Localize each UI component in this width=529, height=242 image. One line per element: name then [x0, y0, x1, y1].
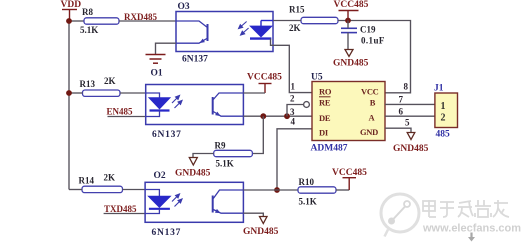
wire VDD to R13	[69, 92, 83, 94]
svg-text:2K: 2K	[104, 76, 116, 86]
svg-text:7: 7	[399, 95, 404, 105]
junction VDD/R13	[66, 90, 72, 96]
svg-text:VCC485: VCC485	[247, 73, 282, 83]
transistor inside O2	[213, 190, 244, 213]
watermark logo circle	[381, 194, 419, 237]
svg-text:6N137: 6N137	[182, 55, 208, 65]
wire O3 anode to R15	[273, 20, 301, 22]
wire O1 collector to VCC485	[243, 92, 265, 94]
svg-text:2: 2	[441, 113, 446, 124]
power VCC485 bottom	[343, 178, 357, 190]
svg-text:O1: O1	[151, 69, 163, 79]
resistor R14	[82, 186, 123, 192]
svg-text:GND485: GND485	[333, 59, 369, 69]
svg-text:4: 4	[291, 117, 296, 127]
svg-text:TXD485: TXD485	[104, 204, 137, 214]
svg-text:R14: R14	[79, 176, 95, 186]
wire VDD to R8	[69, 20, 84, 22]
svg-text:2K: 2K	[104, 173, 116, 183]
junction DI/R10	[274, 187, 280, 193]
power VDD	[62, 10, 77, 22]
svg-text:U5: U5	[311, 73, 323, 83]
resistor R10	[298, 187, 336, 193]
wire RXD485 (R8 to O3)	[119, 20, 176, 22]
optocoupler O2 body	[145, 182, 243, 222]
ground GND485 (C19)	[345, 50, 353, 57]
svg-text:EN485: EN485	[107, 107, 134, 117]
svg-text:6N137: 6N137	[152, 228, 182, 238]
svg-text:DE: DE	[319, 113, 331, 123]
wire R14 to O2	[123, 189, 146, 191]
svg-text:3: 3	[290, 107, 295, 117]
IC U5 ADM487 body	[312, 82, 385, 141]
wire R9 drop	[252, 116, 263, 153]
svg-text:GND485: GND485	[175, 169, 211, 179]
wire EN485	[108, 116, 146, 118]
transistor inside O3	[176, 21, 208, 43]
wire U5 pin5 GND to ground	[385, 128, 411, 132]
svg-text:C19: C19	[360, 25, 376, 35]
svg-text:1: 1	[291, 82, 296, 92]
svg-text:GND485: GND485	[243, 227, 279, 237]
svg-text:485: 485	[436, 130, 451, 140]
light arrows O2	[172, 194, 182, 207]
wire R10 to VCC485	[336, 189, 349, 191]
junction RE/DE tie	[284, 113, 290, 119]
wire U5 pin2 RE tie	[287, 105, 305, 117]
svg-text:5.1K: 5.1K	[216, 159, 234, 169]
wire U5 pin6 A to J1	[385, 115, 435, 117]
svg-text:RXD485: RXD485	[124, 12, 157, 22]
svg-text:R10: R10	[299, 177, 315, 187]
junction R15/C19/VCC485	[345, 18, 351, 24]
power VCC485 mid	[259, 84, 272, 94]
resistor R9	[214, 150, 253, 156]
svg-text:0.1uF: 0.1uF	[361, 36, 385, 46]
svg-text:VCC: VCC	[361, 87, 379, 97]
svg-text:2K: 2K	[289, 23, 301, 33]
svg-text:6N137: 6N137	[152, 130, 182, 140]
svg-text:R9: R9	[215, 141, 226, 151]
junction emitter/R9	[260, 113, 266, 119]
svg-text:GND485: GND485	[393, 144, 429, 154]
wire VDD rail vertical	[68, 21, 70, 190]
ground GND485 (R9)	[189, 158, 197, 166]
ground O1 (earth)	[146, 55, 166, 64]
optocoupler O3 body	[176, 12, 273, 52]
LED inside O3	[250, 21, 273, 39]
svg-text:O2: O2	[154, 171, 166, 181]
optocoupler O1 body	[146, 85, 244, 125]
svg-text:1: 1	[441, 101, 446, 112]
wire O2 collector to R10	[243, 189, 298, 191]
svg-text:J1: J1	[434, 84, 444, 94]
light arrows O3	[239, 22, 249, 36]
svg-text:B: B	[370, 98, 376, 108]
svg-text:VCC485: VCC485	[332, 168, 367, 178]
wire TXD485	[104, 213, 146, 215]
wire R9 to ground	[193, 154, 214, 158]
wire R13 to O1	[120, 92, 146, 94]
ground GND485 (O2)	[260, 217, 268, 224]
svg-text:ADM487: ADM487	[311, 144, 348, 154]
wire O2 emitter to ground	[243, 213, 263, 216]
junction VDD/R8	[66, 18, 72, 24]
svg-text:GND: GND	[360, 127, 378, 137]
wire O1 emitter to DE/RE (U5 pin3)	[243, 115, 312, 117]
svg-text:VCC485: VCC485	[334, 0, 369, 10]
LED inside O1	[146, 93, 170, 117]
watermark arrow	[468, 233, 475, 242]
svg-text:VDD: VDD	[61, 0, 82, 10]
ground GND485 (U5 pin5)	[407, 133, 415, 140]
svg-text:5: 5	[405, 118, 410, 128]
watermark CJK text 电子发烧友	[423, 200, 509, 217]
wire O3 cathode to U5 pin1	[271, 39, 313, 93]
svg-text:O3: O3	[178, 2, 190, 12]
svg-text:RE: RE	[319, 98, 331, 108]
wire C19 stems	[347, 21, 349, 29]
svg-text:5.1K: 5.1K	[80, 25, 98, 35]
svg-text:5.1K: 5.1K	[299, 197, 317, 207]
resistor R15	[301, 17, 338, 23]
wire VDD to R14	[69, 189, 82, 191]
svg-text:RO: RO	[319, 87, 332, 97]
svg-text:DI: DI	[319, 128, 329, 138]
capacitor C19	[341, 28, 357, 32]
LED inside O2	[145, 190, 170, 214]
connector J1 body	[435, 93, 458, 128]
wire O3 emitter to ground	[156, 43, 177, 54]
wire R15 to VCC485 node to U5 pin8	[338, 21, 411, 93]
light arrows O1	[172, 96, 182, 109]
transistor inside O1	[213, 93, 244, 116]
power VCC485 top	[339, 11, 359, 21]
pin2 bubble	[304, 102, 310, 108]
svg-text:R8: R8	[82, 7, 93, 17]
resistor R13	[83, 90, 121, 96]
svg-text:R15: R15	[289, 5, 305, 15]
svg-text:2: 2	[290, 94, 295, 104]
svg-text:6: 6	[399, 107, 404, 117]
resistor R8	[84, 18, 119, 24]
svg-text:8: 8	[404, 82, 409, 92]
wire U5 pin7 B to J1	[385, 103, 435, 105]
wire U5 pin4 DI drop	[277, 129, 312, 190]
svg-text:R13: R13	[80, 79, 96, 89]
